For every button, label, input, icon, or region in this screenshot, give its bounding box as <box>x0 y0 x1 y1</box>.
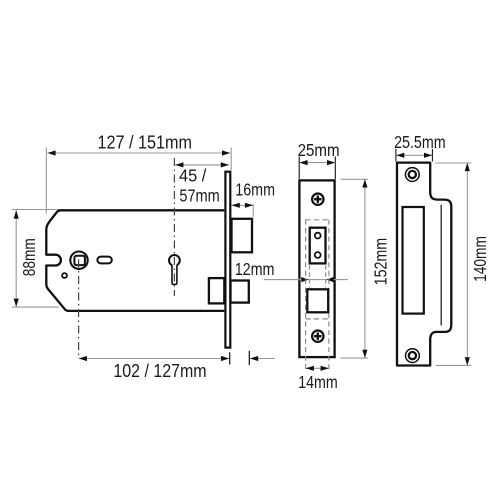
svg-text:25mm: 25mm <box>298 140 340 160</box>
latch width leader line <box>264 279 348 281</box>
keyhole <box>169 255 180 266</box>
deadbolt protruding <box>231 281 249 303</box>
oval slot <box>97 257 111 264</box>
spindle hole circle <box>70 252 87 269</box>
dim 88 extension bottom <box>12 306 59 308</box>
dim 16 extension <box>252 204 254 217</box>
top screw <box>312 194 323 205</box>
dim 152 line <box>364 180 366 358</box>
latch unit dashed sides <box>309 266 311 288</box>
svg-text:88mm: 88mm <box>19 238 39 276</box>
dim 102/127 line <box>79 358 229 360</box>
dim 140 extensions <box>435 162 472 164</box>
svg-text:12mm: 12mm <box>235 259 275 279</box>
faceplate (side) <box>225 172 230 348</box>
dim 45/57 line <box>175 164 229 166</box>
latch bolt protruding <box>232 219 253 253</box>
dim 16 line <box>232 204 254 206</box>
dim 25.5 extensions <box>395 149 397 162</box>
strike plate outline <box>397 163 451 366</box>
dashed case mid <box>306 318 329 320</box>
dim 14 line <box>306 367 329 369</box>
lip fold line <box>440 205 442 326</box>
bottom screw hole <box>406 349 420 363</box>
latch unit <box>310 228 326 264</box>
dashed case outline right <box>328 220 330 372</box>
dim 88 extension top <box>12 209 60 211</box>
strike aperture <box>403 207 424 314</box>
svg-text:102 / 127mm: 102 / 127mm <box>113 360 206 381</box>
forend plate <box>299 180 334 357</box>
lock case outline <box>46 210 224 311</box>
dim 25 extensions <box>298 157 300 180</box>
top screw hole <box>405 168 419 182</box>
svg-text:152mm: 152mm <box>370 238 390 286</box>
svg-text:127 / 151mm: 127 / 151mm <box>98 131 193 152</box>
dim 12 arrow + tail <box>250 358 275 360</box>
svg-text:45 /: 45 / <box>179 166 207 186</box>
dim 88 line <box>15 210 17 306</box>
spindle centreline <box>78 260 80 359</box>
svg-text:25.5mm: 25.5mm <box>394 132 446 152</box>
dashed case outline left <box>305 220 307 372</box>
dim 25.5 line <box>396 154 432 156</box>
svg-text:57mm: 57mm <box>179 185 219 205</box>
svg-text:14mm: 14mm <box>298 372 338 392</box>
dim 12 tick <box>248 351 250 365</box>
svg-text:16mm: 16mm <box>235 179 275 199</box>
spindle square <box>74 256 85 265</box>
dim 127/151 extension line left <box>45 148 47 214</box>
dim 127/151 line <box>47 152 230 154</box>
svg-text:140mm: 140mm <box>470 236 490 282</box>
fixing hole small circle <box>62 273 67 278</box>
dim 25 line <box>299 162 335 164</box>
dashed case top <box>306 219 329 221</box>
dim 140 line <box>466 163 468 365</box>
dim 127/151 extension line right <box>230 148 232 171</box>
dim 102/127 tick right <box>229 352 231 364</box>
deadbolt square <box>307 289 328 312</box>
bottom screw <box>312 331 323 342</box>
deadbolt inner part <box>209 278 224 303</box>
dim 152 extensions <box>341 178 369 180</box>
keyhole centreline <box>173 158 175 296</box>
